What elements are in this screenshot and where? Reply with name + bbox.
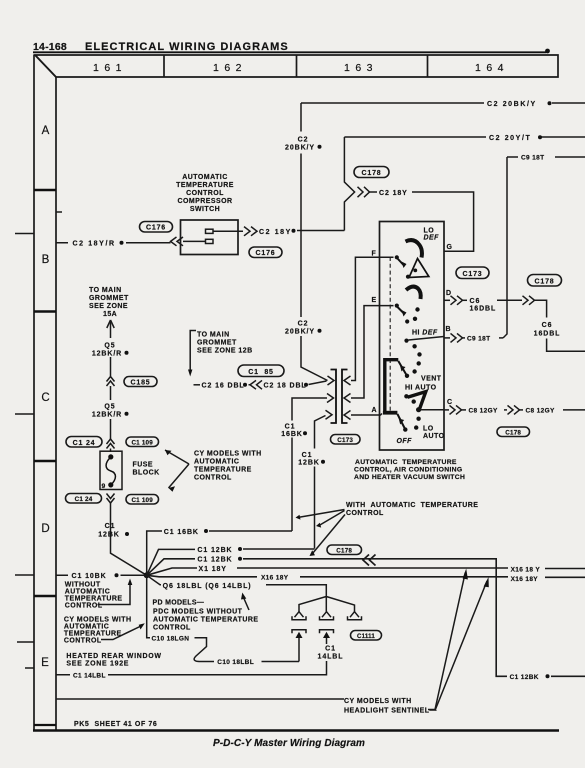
svg-text:CONTROL: CONTROL: [346, 510, 384, 517]
svg-text:163: 163: [344, 62, 378, 74]
compressor switch pin 1: [206, 229, 214, 233]
wire C1 16BK from connector: [292, 398, 327, 531]
row4 X16 18Y: [147, 575, 585, 577]
svg-text:CONTROL: CONTROL: [186, 190, 224, 197]
terminal F dot and blade: [395, 255, 399, 259]
svg-text:C178: C178: [505, 430, 521, 437]
svg-text:TO MAIN: TO MAIN: [197, 332, 230, 339]
strip small tick right: [56, 211, 62, 213]
arrow double chevron C: [450, 405, 462, 414]
connector chevron C1 24 bottom (double down): [107, 494, 115, 504]
contact dots pos3-pos4: [412, 344, 416, 348]
svg-text:C9 18T: C9 18T: [521, 155, 544, 162]
right arrow row3: [344, 411, 351, 420]
wire Q6 to sentinel assembly: [266, 585, 326, 597]
row3 X1 18Y / X16 18Y long: [147, 568, 585, 575]
svg-text:C2: C2: [298, 321, 309, 328]
svg-text:FUSE: FUSE: [133, 462, 153, 469]
svg-text:C2: C2: [298, 137, 309, 144]
contact dots pos6: [416, 417, 420, 421]
svg-text:C6: C6: [542, 322, 553, 329]
wire C to edge: [563, 409, 585, 411]
svg-text:WITH AUTOMATIC TEMPERATURE: WITH AUTOMATIC TEMPERATURE: [346, 502, 478, 509]
svg-text:9: 9: [102, 483, 106, 490]
wire D out of box: [444, 299, 450, 301]
svg-text:COMPRESSOR: COMPRESSOR: [177, 198, 232, 205]
wire dash before C2 18Y: [370, 191, 378, 193]
svg-text:16DBL: 16DBL: [534, 331, 561, 338]
svg-text:12BK/R: 12BK/R: [92, 351, 122, 358]
compressor switch box: [181, 220, 239, 255]
connector arrow C178 double chevron: [358, 187, 370, 197]
svg-text:P-D-C-Y Master Wiring Diagram: P-D-C-Y Master Wiring Diagram: [213, 738, 365, 749]
pointer from PDC note to Q6 label: [244, 598, 250, 611]
svg-text:C176: C176: [256, 250, 276, 257]
vacuum switch outline: [380, 222, 445, 451]
svg-text:C: C: [41, 392, 49, 404]
svg-text:HEADLIGHT SENTINEL—: HEADLIGHT SENTINEL—: [344, 707, 437, 714]
header underline rule: [33, 51, 546, 53]
footer separator line: [56, 698, 344, 700]
svg-text:20BK/Y: 20BK/Y: [285, 329, 315, 336]
wire C2 20BK/Y vertical drop: [301, 103, 328, 381]
bottom frame line: [33, 729, 559, 732]
svg-text:C1 24: C1 24: [73, 440, 96, 447]
wire F to connector: [351, 257, 394, 380]
svg-text:OFF: OFF: [397, 438, 413, 445]
zone number header row box: [35, 55, 558, 77]
svg-text:C1 16BK: C1 16BK: [164, 529, 199, 536]
terminal A bar: [383, 411, 398, 415]
svg-text:C1 14LBL: C1 14LBL: [73, 673, 106, 680]
wire into fuse block: [110, 449, 112, 453]
svg-text:X16 18Y: X16 18Y: [511, 576, 539, 583]
svg-text:DEF: DEF: [424, 235, 440, 242]
svg-text:16DBL: 16DBL: [470, 305, 497, 312]
svg-text:X16 18 Y: X16 18 Y: [511, 566, 541, 573]
connector chevron C185 (double up): [107, 377, 115, 387]
zone letter strip left edge: [33, 55, 35, 730]
svg-text:C9 18T: C9 18T: [467, 336, 490, 343]
arrow double chevron D: [451, 296, 463, 305]
callout arrows to C1 109 ovals: [165, 450, 189, 488]
left margin tick D: [15, 574, 34, 576]
svg-text:GROMMET: GROMMET: [197, 340, 237, 347]
svg-text:CY MODELS WITH: CY MODELS WITH: [194, 451, 262, 458]
wire C2 20BK/Y top horizontal: [301, 102, 585, 104]
wire C out of box: [444, 409, 449, 411]
VENT bracket arm: [385, 360, 399, 412]
svg-text:C8 12GY: C8 12GY: [526, 408, 556, 415]
svg-text:C173: C173: [463, 271, 483, 278]
strip separator B/C: [34, 310, 56, 313]
svg-text:CONTROL: CONTROL: [194, 475, 232, 482]
svg-text:AUTOMATIC TEMPERATURE: AUTOMATIC TEMPERATURE: [355, 459, 457, 466]
svg-text:15A: 15A: [103, 311, 117, 318]
wire C1 12BK below fuse: [111, 503, 147, 575]
svg-text:A: A: [372, 407, 378, 414]
svg-text:C178: C178: [535, 279, 555, 286]
left arrow row2: [327, 394, 334, 403]
upper terminal 3: [350, 612, 359, 618]
wire Q5 12BK/R lower segment: [110, 386, 112, 439]
svg-text:GROMMET: GROMMET: [89, 295, 129, 302]
pos1 LO DEF blade arc: [406, 240, 422, 257]
svg-text:C2 18Y: C2 18Y: [259, 229, 292, 236]
svg-text:G: G: [447, 244, 453, 251]
svg-text:C178: C178: [362, 170, 382, 177]
svg-text:AUTOMATIC: AUTOMATIC: [65, 588, 110, 595]
wire C10 18LGN hook to C10 18LBL: [194, 638, 214, 662]
strip separator A/B: [34, 189, 56, 192]
svg-text:CONTROL: CONTROL: [64, 637, 102, 644]
svg-text:16BK: 16BK: [281, 431, 303, 438]
connector oval C1 24 (bottom): [66, 494, 102, 504]
bracket and arrow down to wire: [190, 331, 196, 371]
svg-text:SWITCH: SWITCH: [190, 206, 220, 213]
svg-text:C1 12BK: C1 12BK: [197, 557, 232, 564]
wire C2 18 DBL into connector C173: [309, 381, 327, 385]
compressor switch pin 2: [206, 239, 214, 243]
connector chevron (double left) on 12B row: [249, 380, 263, 389]
wire B out of box: [444, 337, 450, 339]
connector oval C178 (below C row): [497, 427, 530, 437]
strip separator D/E: [34, 595, 56, 598]
connector chevron double left on row2: [363, 555, 376, 566]
left arrow row3: [326, 410, 333, 419]
right arrow row2: [344, 394, 351, 403]
wire C1 12BK from connector: [315, 416, 326, 549]
svg-text:C178: C178: [336, 548, 352, 555]
upper terminal 2: [322, 612, 331, 618]
svg-text:C1 12BK: C1 12BK: [510, 674, 539, 681]
svg-text:C2 16 DBL: C2 16 DBL: [202, 383, 245, 390]
OFF blade: [397, 414, 404, 429]
wire pin1 to C2 18Y arrow: [213, 230, 243, 232]
svg-text:AUTOMATIC: AUTOMATIC: [194, 459, 239, 466]
connector oval C176 (lower right): [249, 247, 282, 258]
wire C10 18LGN drop from fan: [147, 575, 150, 638]
svg-text:PD MODELS—: PD MODELS—: [153, 599, 205, 606]
svg-text:TEMPERATURE: TEMPERATURE: [65, 595, 123, 602]
row C1 16BK riser from fan: [147, 531, 292, 575]
svg-text:WITHOUT: WITHOUT: [65, 581, 101, 588]
svg-text:X1 18Y: X1 18Y: [199, 566, 227, 573]
right arrow row1: [344, 376, 351, 385]
wire C continues: [504, 409, 507, 411]
connector oval C1 109 (bottom): [126, 495, 159, 505]
svg-text:Q5: Q5: [104, 343, 115, 350]
header rule end dot: [545, 49, 550, 54]
wire C9 18T top horizontal: [507, 156, 585, 158]
svg-text:HI AUTO: HI AUTO: [405, 385, 437, 392]
arrow double chevron B: [451, 333, 463, 342]
header row divider 162|163: [296, 55, 298, 77]
svg-text:PDC MODELS WITHOUT: PDC MODELS WITHOUT: [153, 608, 243, 615]
wire A to connector: [351, 414, 382, 416]
svg-text:PK5 SHEET 41 OF 76: PK5 SHEET 41 OF 76: [74, 721, 157, 728]
svg-text:161: 161: [93, 62, 127, 74]
svg-text:C185: C185: [131, 380, 151, 387]
svg-text:HEATED REAR WINDOW: HEATED REAR WINDOW: [66, 653, 161, 660]
connector oval C178 (top): [354, 167, 389, 178]
svg-text:C173: C173: [337, 437, 353, 444]
svg-text:AND HEATER VACUUM SWITCH: AND HEATER VACUUM SWITCH: [354, 474, 465, 481]
pos1 wedge outline: [409, 259, 429, 278]
svg-text:LO: LO: [424, 228, 435, 235]
svg-text:E: E: [41, 657, 49, 669]
svg-text:AUTO: AUTO: [423, 433, 445, 440]
svg-text:C1: C1: [285, 424, 296, 431]
svg-text:C2 20Y/T: C2 20Y/T: [489, 135, 531, 142]
svg-text:C1 85: C1 85: [248, 369, 273, 376]
row2 C1 12BK long: [147, 559, 585, 677]
svg-text:20BK/Y: 20BK/Y: [285, 145, 315, 152]
connector oval C1111: [351, 631, 382, 641]
svg-text:C2 18Y/R: C2 18Y/R: [73, 241, 116, 248]
wire D continues: [497, 299, 522, 301]
svg-text:AUTOMATIC: AUTOMATIC: [64, 623, 109, 630]
sentinel arrows to X16 rows: [428, 573, 465, 710]
svg-text:CONTROL: CONTROL: [153, 624, 191, 631]
wire B to riser: [499, 337, 503, 339]
connector oval C178 (far right of switch): [528, 275, 562, 287]
svg-text:CONTROL, AIR CONDITIONING: CONTROL, AIR CONDITIONING: [354, 467, 462, 474]
left bracket bar: [331, 370, 337, 424]
svg-text:Q5: Q5: [104, 404, 115, 411]
dashed actuator line: [389, 257, 391, 412]
zone letter strip right edge: [55, 77, 57, 730]
svg-text:AUTOMATIC TEMPERATURE: AUTOMATIC TEMPERATURE: [153, 616, 259, 623]
svg-text:CY MODELS WITH: CY MODELS WITH: [64, 616, 132, 623]
svg-text:C2 18 DBL: C2 18 DBL: [264, 383, 307, 390]
wire C10 18LBL to assembly: [262, 661, 300, 663]
terminal E dot and blade: [395, 304, 399, 308]
svg-text:A: A: [42, 125, 50, 137]
connector oval C1 24 (top): [66, 437, 102, 448]
connector oval C1 85: [238, 365, 284, 377]
svg-text:162: 162: [213, 62, 247, 74]
header row divider 163|164: [427, 55, 429, 77]
svg-text:D: D: [41, 523, 49, 535]
wire C2 16 DBL row: [194, 384, 201, 386]
svg-text:164: 164: [475, 62, 509, 74]
connector oval C173 (right of switch): [456, 267, 489, 279]
pos2 blade arc: [406, 287, 421, 299]
svg-text:C1111: C1111: [357, 633, 375, 640]
svg-text:HI DEF: HI DEF: [412, 330, 438, 337]
svg-text:E: E: [372, 297, 378, 304]
VENT blade: [398, 361, 406, 375]
svg-text:F: F: [372, 251, 377, 258]
svg-text:C1 109: C1 109: [131, 497, 153, 504]
fan junction node: [144, 572, 150, 578]
svg-text:C8 12GY: C8 12GY: [469, 408, 499, 415]
wire C2 18Y to switch G: [412, 192, 474, 251]
left margin tick E1: [17, 641, 34, 643]
wire Q5 12BK/R upper segment: [110, 321, 112, 376]
svg-text:TEMPERATURE: TEMPERATURE: [176, 182, 234, 189]
svg-text:C2 20BK/Y: C2 20BK/Y: [487, 101, 537, 108]
contact dots pos2-pos3: [415, 307, 419, 311]
wire C contact to box edge: [421, 409, 445, 411]
arrow double chevron D second: [523, 296, 535, 305]
lower terminal 2 with up arrow: [320, 630, 334, 634]
svg-text:C10 18LGN: C10 18LGN: [152, 636, 190, 643]
HI AUTO blade: [408, 392, 426, 409]
connector oval C176 (upper left): [140, 222, 173, 233]
wire C1 10BK: [56, 574, 147, 576]
svg-text:TEMPERATURE: TEMPERATURE: [194, 467, 252, 474]
svg-text:12BK/R: 12BK/R: [92, 412, 122, 419]
svg-text:B: B: [42, 254, 50, 266]
svg-text:C1: C1: [302, 452, 313, 459]
svg-text:12BK: 12BK: [298, 460, 320, 467]
wire C2 20Y/T horizontal: [344, 136, 585, 138]
fan to three terminals: [299, 597, 355, 612]
svg-text:SEE ZONE 12B: SEE ZONE 12B: [197, 348, 253, 355]
svg-text:C2 18Y: C2 18Y: [379, 190, 408, 197]
callout arrows: [299, 510, 345, 518]
lower terminal 1 with up arrow: [292, 630, 306, 634]
splice dot C2 20BK/Y: [548, 101, 552, 105]
svg-text:TEMPERATURE: TEMPERATURE: [64, 630, 122, 637]
connector arrow C176 right (double chevron): [244, 227, 257, 236]
svg-text:TO MAIN: TO MAIN: [89, 287, 122, 294]
svg-text:B: B: [446, 326, 452, 333]
svg-text:14LBL: 14LBL: [318, 654, 344, 661]
wire E to connector: [351, 306, 394, 398]
svg-text:AUTOMATIC: AUTOMATIC: [182, 174, 227, 181]
svg-text:C1: C1: [105, 523, 116, 530]
svg-text:VENT: VENT: [421, 376, 442, 383]
svg-text:ELECTRICAL WIRING DIAGRAMS: ELECTRICAL WIRING DIAGRAMS: [85, 41, 289, 53]
header row divider 161|162: [163, 55, 165, 77]
fuse element dots and squiggle: [108, 454, 113, 459]
strip separator E/bottom: [34, 724, 56, 726]
svg-text:C1 24: C1 24: [75, 496, 93, 503]
row1 C1 12BK: [147, 549, 315, 575]
svg-text:BLOCK: BLOCK: [133, 470, 160, 477]
svg-text:12BK: 12BK: [98, 532, 120, 539]
wire to corner and down: [535, 300, 585, 351]
svg-text:C176: C176: [146, 225, 166, 232]
wire C2 18Y from compressor to riser: [297, 230, 344, 232]
svg-text:C1: C1: [325, 645, 336, 652]
terminal HI DEF dot and wire to B: [404, 339, 408, 343]
connector oval C173 (below connector): [331, 435, 361, 445]
wire C9 18T vertical drop: [503, 157, 507, 338]
svg-text:14-168: 14-168: [33, 41, 67, 53]
right bracket bar: [342, 370, 348, 424]
connector oval C178 (row area): [327, 545, 362, 555]
svg-text:C1 12BK: C1 12BK: [197, 547, 232, 554]
left margin tick C: [15, 413, 34, 415]
wire C2 20Y/T vertical + merge chevron: [344, 137, 354, 231]
connector chevron C1 24 top (double up): [107, 439, 115, 449]
left arrow row1: [328, 376, 335, 385]
svg-text:X16 18Y: X16 18Y: [261, 575, 289, 582]
svg-text:C1 10BK: C1 10BK: [72, 573, 107, 580]
svg-text:SEE ZONE: SEE ZONE: [89, 303, 128, 310]
upper terminal 1: [295, 612, 304, 618]
fuse block box: [100, 451, 122, 489]
connector oval C185: [124, 377, 157, 387]
svg-text:CY MODELS WITH: CY MODELS WITH: [344, 698, 412, 705]
svg-text:C1 109: C1 109: [131, 440, 153, 447]
arrow double chevron C second: [508, 405, 520, 414]
svg-text:C6: C6: [470, 298, 481, 305]
svg-text:CONTROL: CONTROL: [65, 602, 103, 609]
wire pin2 to left chevron: [183, 240, 206, 242]
wire C2 18Y/R: [56, 242, 171, 244]
row Q6 18LBL: [147, 575, 161, 584]
callout line and arrow to LGN riser: [101, 626, 141, 640]
callout line and arrow up: [98, 584, 131, 605]
left margin tick B: [15, 233, 34, 235]
svg-text:C10 18LBL: C10 18LBL: [217, 659, 254, 666]
connector oval C1 109 (top): [126, 437, 159, 447]
header row corner diagonal: [35, 55, 56, 77]
strip separator C/D: [34, 460, 56, 463]
left margin tick E2: [25, 667, 34, 669]
svg-text:LO: LO: [423, 426, 434, 433]
svg-text:Q6 18LBL (Q6 14LBL): Q6 18LBL (Q6 14LBL): [163, 583, 252, 590]
arrow up to grommet: [107, 320, 114, 328]
svg-text:SEE ZONE 192E: SEE ZONE 192E: [66, 660, 129, 667]
connector arrow C176 left (double chevron): [171, 237, 184, 246]
